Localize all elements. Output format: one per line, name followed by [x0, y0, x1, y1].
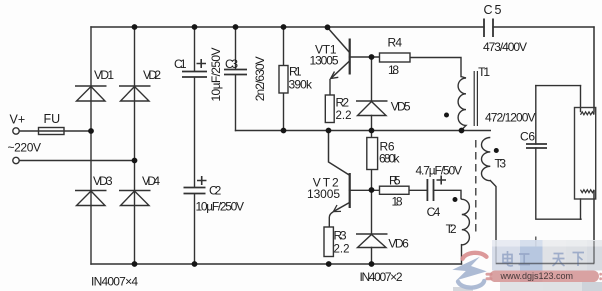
- transformer T2 winding: [461, 199, 469, 245]
- node ~220V bridge: [132, 158, 138, 164]
- wire VT1 base to R4: [350, 56, 380, 58]
- plus mark C2: [197, 176, 207, 185]
- wire VD5 branch: [371, 57, 373, 131]
- node VT1 base: [369, 54, 375, 60]
- polarity dot T1: [444, 113, 449, 118]
- svg-text:VD3: VD3: [93, 174, 113, 188]
- wire V+ input to fuse: [20, 130, 39, 132]
- resistor R3: [324, 227, 333, 257]
- polarity dot T2: [453, 197, 458, 202]
- node mid rail R2 VT2: [326, 128, 332, 134]
- resistor R6: [367, 138, 378, 170]
- watermark logo red arc: [463, 253, 487, 259]
- wire bottom rail: [91, 263, 462, 265]
- plus mark C1: [197, 59, 207, 68]
- watermark tile background: [453, 240, 602, 291]
- svg-text:10µF/250V: 10µF/250V: [196, 200, 245, 214]
- svg-text:VD5: VD5: [391, 99, 411, 113]
- node mid rail VD5 R6: [369, 128, 375, 134]
- svg-text:VD4: VD4: [142, 174, 160, 188]
- svg-text:FU: FU: [44, 112, 61, 126]
- transformer T1 core: [474, 71, 477, 126]
- svg-text:390k: 390k: [289, 77, 314, 91]
- svg-text:4.7µF/50V: 4.7µF/50V: [416, 164, 463, 178]
- wire VT2 base to R5: [350, 189, 380, 191]
- transformer T2 T3 core dashed: [475, 140, 477, 232]
- watermark logo blue Z: [452, 257, 487, 281]
- svg-text:R4: R4: [388, 35, 403, 49]
- node mid rail R1: [281, 128, 287, 134]
- node top rail VT1 collector: [325, 24, 331, 30]
- wire bridge column VD1/VD3: [90, 27, 92, 264]
- svg-text:13005: 13005: [310, 53, 339, 67]
- node V+ bridge: [88, 128, 94, 134]
- node top rail C1: [192, 24, 198, 30]
- diode VD6: [356, 234, 388, 248]
- watermark character gong: [519, 254, 531, 265]
- svg-text:www.dgjs123.com: www.dgjs123.com: [500, 271, 574, 281]
- fuse FU: [39, 128, 65, 135]
- watermark logo blue arc: [458, 281, 484, 288]
- svg-text:IN4007×4: IN4007×4: [91, 275, 138, 289]
- resistor R2: [325, 95, 334, 123]
- wire C4 to T2: [434, 190, 462, 198]
- svg-text:473/400V: 473/400V: [483, 40, 527, 54]
- watermark character xia: [573, 253, 585, 267]
- resistor R4: [380, 53, 411, 62]
- lamp tube: [575, 108, 596, 200]
- svg-text:C5: C5: [484, 3, 502, 17]
- svg-text:2n2/630V: 2n2/630V: [253, 56, 267, 101]
- diode VD5: [356, 101, 388, 116]
- svg-text:680k: 680k: [379, 151, 401, 165]
- node top rail R1: [281, 24, 287, 30]
- transistor VT2: [329, 131, 351, 228]
- svg-text:472/1200V: 472/1200V: [485, 111, 536, 125]
- wire faint stub below C6 corner: [535, 237, 537, 247]
- wire VD6 branch: [371, 190, 373, 264]
- wire lamp bottom right pin: [593, 191, 595, 264]
- node bottom rail C2: [192, 261, 198, 267]
- transistor VT1: [328, 28, 351, 96]
- diode VD1: [75, 86, 107, 101]
- svg-text:~220V: ~220V: [8, 141, 42, 155]
- wire lamp top left pin: [580, 86, 582, 112]
- node bottom rail R3: [326, 261, 332, 267]
- lamp bottom filament: [581, 190, 595, 264]
- wire R4 to T1: [410, 58, 461, 77]
- svg-text:C2: C2: [209, 183, 222, 197]
- node VT2 base: [369, 187, 375, 193]
- resistor R5: [380, 186, 410, 194]
- svg-text:C1: C1: [174, 57, 187, 71]
- wire C1 C2 column: [194, 27, 196, 264]
- wire bottom rail right segment seen through watermark: [496, 263, 594, 265]
- watermark url band left ticks: [486, 273, 602, 280]
- svg-text:C6: C6: [520, 129, 535, 143]
- node bottom rail VD4: [132, 261, 138, 267]
- watermark character dian: [503, 251, 513, 266]
- svg-text:C3: C3: [225, 57, 238, 71]
- wire R1 column: [283, 27, 285, 131]
- capacitor C2: [184, 188, 206, 194]
- wire fuse to bridge: [64, 130, 91, 132]
- diode VD2: [119, 86, 151, 101]
- svg-text:R2: R2: [336, 95, 350, 109]
- capacitor C3: [224, 70, 247, 75]
- wire mid rail: [236, 130, 491, 132]
- svg-text:18: 18: [388, 63, 399, 77]
- node top rail C3: [233, 24, 239, 30]
- terminal V+: [13, 128, 19, 134]
- svg-text:T3: T3: [495, 156, 507, 170]
- wire bottom rail right segment: [496, 263, 594, 265]
- wire T2 bottom to rail: [461, 245, 463, 264]
- wire C6 bottom to lamp: [536, 148, 581, 219]
- svg-text:18: 18: [392, 194, 403, 208]
- watermark url band: [490, 271, 600, 283]
- svg-text:IN4007×2: IN4007×2: [360, 270, 403, 284]
- svg-text:VD1: VD1: [94, 68, 114, 82]
- watermark character tian: [553, 254, 565, 267]
- svg-text:VD6: VD6: [388, 237, 409, 251]
- svg-text:10µF/250V: 10µF/250V: [209, 48, 223, 102]
- node top rail VD2: [132, 24, 138, 30]
- capacitor C5: [484, 19, 493, 38]
- capacitor C4: [427, 179, 433, 201]
- capacitor C1: [182, 72, 207, 78]
- wire R5 to C4: [409, 189, 427, 191]
- wire top rail right of C5: [493, 26, 594, 28]
- polarity dot T3: [494, 148, 499, 153]
- wire top rail left of C5: [91, 26, 484, 28]
- wire C6 column top: [535, 86, 537, 144]
- terminal ~220V: [13, 157, 19, 163]
- svg-text:2.2: 2.2: [334, 243, 350, 255]
- wire ~220V input to bridge: [20, 160, 135, 162]
- svg-text:13005: 13005: [307, 187, 340, 201]
- svg-text:V+: V+: [10, 113, 26, 127]
- wire T3 bottom: [490, 181, 496, 264]
- plus mark C4: [437, 176, 447, 185]
- transformer T3 winding: [481, 138, 490, 181]
- svg-text:2.2: 2.2: [336, 110, 352, 122]
- wire lamp right pin seen through watermark: [593, 241, 595, 264]
- diode VD3: [75, 191, 107, 206]
- node bottom rail VD6: [369, 261, 375, 267]
- wire bridge column VD2/VD4: [134, 27, 136, 264]
- resistor R1: [279, 66, 288, 94]
- svg-text:VD2: VD2: [143, 68, 161, 82]
- wire right drop to lamp top filament right pin: [593, 27, 595, 112]
- capacitor C6: [526, 144, 547, 148]
- diode VD4: [119, 191, 151, 206]
- svg-text:T1: T1: [478, 65, 490, 79]
- wire lamp bottom left pin: [580, 199, 582, 219]
- svg-text:R5: R5: [389, 174, 401, 188]
- lamp top filament: [581, 27, 595, 115]
- svg-text:R3: R3: [334, 228, 347, 242]
- wire C6 top branch to lamp: [536, 85, 581, 87]
- wire R6 leads: [371, 131, 373, 191]
- wire C3 column: [235, 27, 237, 131]
- transformer T1 winding: [458, 77, 466, 131]
- node mid rail T1: [459, 128, 465, 134]
- svg-text:C4: C4: [427, 205, 441, 219]
- svg-text:T2: T2: [446, 222, 457, 236]
